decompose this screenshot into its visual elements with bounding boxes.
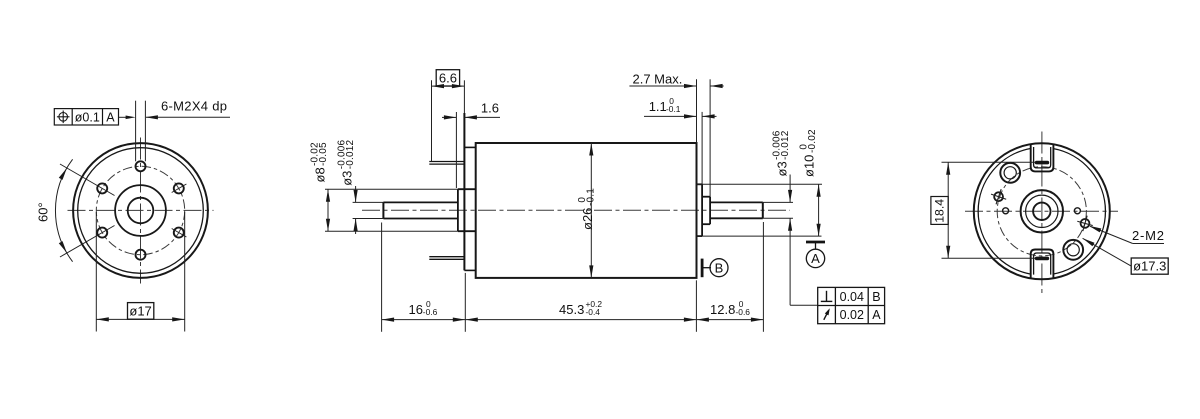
svg-text:12.8: 12.8	[710, 302, 735, 317]
svg-text:6.6: 6.6	[439, 71, 457, 86]
svg-text:1.1: 1.1	[649, 99, 667, 114]
svg-text:ø10: ø10	[802, 155, 817, 177]
svg-text:18.4: 18.4	[932, 199, 946, 223]
svg-text:-0.1: -0.1	[585, 188, 596, 206]
svg-text:A: A	[811, 251, 820, 266]
svg-text:-0.1: -0.1	[666, 104, 681, 114]
svg-text:16: 16	[409, 302, 423, 317]
svg-text:A: A	[106, 110, 115, 124]
svg-text:ø17.3: ø17.3	[1133, 259, 1166, 274]
svg-text:0.04: 0.04	[840, 290, 864, 304]
svg-text:2-M2: 2-M2	[1132, 228, 1165, 243]
svg-text:2.7 Max.: 2.7 Max.	[633, 71, 683, 86]
svg-text:60°: 60°	[36, 202, 51, 222]
svg-text:ø8: ø8	[313, 167, 328, 182]
svg-text:ø26: ø26	[580, 208, 595, 230]
svg-text:B: B	[872, 290, 880, 304]
svg-text:-0.6: -0.6	[423, 307, 438, 317]
svg-text:1.6: 1.6	[481, 101, 499, 116]
svg-text:-0.4: -0.4	[586, 307, 601, 317]
svg-text:ø3: ø3	[775, 161, 790, 176]
svg-text:-0.05: -0.05	[318, 142, 329, 166]
svg-text:ø0.1: ø0.1	[75, 110, 100, 124]
svg-text:6-M2X4 dp: 6-M2X4 dp	[161, 99, 227, 114]
svg-text:-0.012: -0.012	[780, 130, 791, 160]
svg-text:0.02: 0.02	[840, 308, 864, 322]
svg-text:ø3: ø3	[340, 171, 355, 186]
svg-text:ø17: ø17	[129, 304, 151, 319]
svg-text:45.3: 45.3	[559, 302, 584, 317]
svg-text:-0.6: -0.6	[736, 307, 751, 317]
svg-text:-0.02: -0.02	[807, 129, 818, 153]
svg-text:-0.012: -0.012	[345, 140, 356, 170]
svg-text:B: B	[715, 260, 724, 275]
svg-text:A: A	[872, 308, 881, 322]
